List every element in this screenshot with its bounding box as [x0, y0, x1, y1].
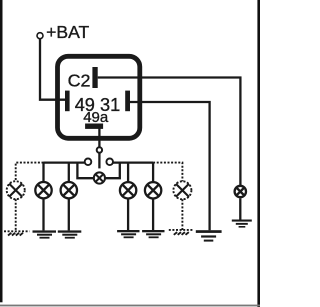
wire bus to lamp L2 — [42, 163, 44, 182]
svg-text:C2: C2 — [68, 71, 91, 91]
lamp R3 dashed — [173, 181, 191, 199]
switch pole contact — [97, 147, 102, 152]
terminal C2 bar — [92, 67, 97, 88]
svg-text:+BAT: +BAT — [46, 22, 89, 42]
ground terminal 31 — [196, 230, 222, 241]
pilot lamp — [94, 172, 105, 183]
ground dashed right — [169, 230, 193, 235]
wire 31 to ground — [130, 102, 210, 230]
ground lamp R2 — [142, 230, 164, 238]
relay K1 flasher unit body — [58, 56, 140, 138]
wire 49a to switch pole — [98, 127, 100, 147]
lamp R2 — [145, 182, 161, 198]
wire C2 to right side lamp — [98, 78, 241, 186]
terminal 49 bar — [65, 91, 70, 112]
ground lamp L3 — [58, 230, 82, 238]
wire +BAT to terminal 49 — [40, 39, 66, 100]
terminal 31 bar — [125, 91, 130, 112]
wire lamp R1 to ground — [127, 199, 129, 231]
ground lamp L2 — [33, 230, 57, 238]
wire left bus — [44, 161, 85, 163]
ground lamp R1 — [117, 230, 139, 238]
lamp L2 — [35, 182, 51, 198]
wire lamp R2 to ground — [152, 199, 154, 231]
switch arm stub — [98, 153, 100, 168]
wire bus to lamp R2 — [152, 163, 154, 182]
terminal 49a bar — [85, 124, 103, 129]
wire stub left to pilot lamp — [77, 163, 93, 179]
lamp L3 — [61, 182, 77, 198]
frame bottom border — [0, 305, 260, 307]
lamp right repeater — [235, 186, 246, 197]
wire stub right to pilot lamp — [105, 163, 119, 179]
frame right border — [257, 0, 260, 307]
ground right lamp — [232, 220, 252, 228]
terminal +BAT — [37, 33, 43, 39]
wire dashed bus to lamp R3 — [153, 163, 182, 182]
lamp L1 dashed — [7, 181, 25, 199]
wire dashed bus to lamp L1 — [16, 163, 44, 182]
wire lamp L1 to ground dashed — [15, 199, 17, 230]
wire bus to lamp L3 — [68, 163, 70, 182]
lamp R1 — [120, 182, 136, 198]
wire bus to lamp R1 — [127, 163, 129, 182]
wire right bus — [113, 161, 153, 163]
wire lamp L3 to ground — [68, 198, 70, 230]
wire lamp L2 to ground — [42, 198, 44, 230]
switch right contact — [106, 159, 113, 166]
wire lamp R3 to ground dashed — [181, 199, 183, 230]
wire right lamp to ground — [239, 198, 241, 219]
ground dashed left — [4, 231, 30, 235]
switch left contact — [85, 159, 92, 166]
frame left border — [0, 0, 3, 302]
